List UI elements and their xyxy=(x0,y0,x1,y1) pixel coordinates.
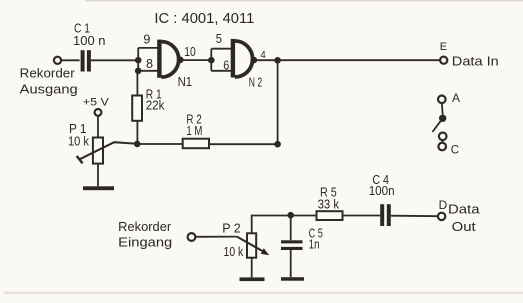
capacitor C5 xyxy=(281,216,323,278)
ground (P1) xyxy=(83,186,114,190)
svg-text:N 2: N 2 xyxy=(249,76,262,90)
svg-text:C: C xyxy=(451,145,459,157)
wire P1 to ground xyxy=(97,164,99,187)
resistor R2 xyxy=(183,112,209,148)
svg-text:A: A xyxy=(452,91,460,105)
switch lever xyxy=(432,118,442,132)
wire C4 to D terminal xyxy=(391,215,438,218)
wire bottom scan artifact line xyxy=(4,292,523,295)
svg-text:10 k: 10 k xyxy=(224,245,244,259)
wire pin 6 xyxy=(211,70,231,72)
wire top scan artifact line xyxy=(85,0,523,2)
resistor R5 xyxy=(317,185,343,220)
svg-text:+5 V: +5 V xyxy=(83,96,110,108)
wire N2 input riser xyxy=(210,49,212,71)
wire terminal to C1 xyxy=(61,59,79,61)
node N1 output dot xyxy=(177,57,184,64)
svg-text:Data In: Data In xyxy=(452,54,499,68)
wire pin 9 xyxy=(138,47,158,49)
svg-text:10 k: 10 k xyxy=(68,134,90,148)
resistor R1 xyxy=(132,71,165,144)
svg-text:100 n: 100 n xyxy=(73,34,106,48)
capacitor C4 xyxy=(369,173,395,226)
node pin8 junction xyxy=(135,68,142,75)
gate N1 xyxy=(157,40,192,89)
switch contact circle xyxy=(439,133,447,141)
wire C1 to N1 input node xyxy=(91,59,138,61)
wire N1 out to N2 in xyxy=(181,59,212,61)
svg-text:22k: 22k xyxy=(146,98,165,112)
wire switch contact link xyxy=(441,140,443,143)
wire N2 out to feedback node xyxy=(254,59,278,61)
wire feedback bottom to R2 xyxy=(209,143,278,145)
wire input riser xyxy=(137,48,139,71)
svg-text:N1: N1 xyxy=(178,75,193,89)
wire P1 wiper xyxy=(77,142,137,163)
svg-text:33 k: 33 k xyxy=(318,197,340,211)
svg-text:Eingang: Eingang xyxy=(118,235,172,249)
node feedback junction top xyxy=(274,57,281,64)
node R1 bottom junction xyxy=(134,141,141,148)
node feedback junction bottom xyxy=(274,141,281,148)
node C terminal xyxy=(438,143,459,157)
wire P2 wiper arrow xyxy=(237,237,270,256)
wire output to E terminal xyxy=(278,59,441,61)
svg-text:Ausgang: Ausgang xyxy=(20,83,78,97)
potentiometer P1 xyxy=(68,96,110,163)
switch pole dot xyxy=(439,115,446,122)
wire P2 to ground xyxy=(251,258,253,278)
wire P2 top riser to rail xyxy=(252,216,291,234)
svg-text:E: E xyxy=(440,41,447,53)
svg-text:1 M: 1 M xyxy=(186,124,202,138)
wire junction to R5 xyxy=(291,215,317,217)
ground (P2) xyxy=(240,277,265,281)
wire feedback riser xyxy=(277,60,279,144)
svg-text:Rekorder: Rekorder xyxy=(118,220,171,234)
svg-text:5: 5 xyxy=(216,32,222,46)
wire R2 to R1 bottom junction xyxy=(137,143,183,145)
wire switch A to pole xyxy=(441,103,444,115)
capacitor C1 xyxy=(73,21,106,71)
svg-text:8: 8 xyxy=(146,57,153,71)
svg-text:D: D xyxy=(439,198,448,212)
svg-text:6: 6 xyxy=(223,58,229,72)
svg-text:Out: Out xyxy=(452,220,477,234)
ground (C5) xyxy=(281,277,304,281)
node A terminal xyxy=(438,91,460,105)
node N1 input junction xyxy=(135,57,142,64)
svg-text:9: 9 xyxy=(143,32,150,46)
svg-text:10: 10 xyxy=(184,45,196,59)
svg-text:P 2: P 2 xyxy=(222,221,241,235)
wire R5 to C4 xyxy=(343,215,381,217)
svg-text:Data: Data xyxy=(448,203,480,217)
wire pin 8 xyxy=(138,70,158,72)
svg-text:4: 4 xyxy=(260,49,266,61)
node D terminal xyxy=(438,198,480,234)
node E terminal xyxy=(440,41,499,69)
node N2 output dot xyxy=(251,57,258,64)
wire Eingang to wiper xyxy=(195,236,236,238)
svg-text:1n: 1n xyxy=(309,237,320,251)
node N2 input junction xyxy=(208,57,215,64)
svg-text:IC : 4001, 4011: IC : 4001, 4011 xyxy=(154,11,254,27)
wire pin 5 xyxy=(211,48,231,50)
gate N2 xyxy=(231,39,262,90)
potentiometer P2 xyxy=(222,221,256,259)
node Rekorder Eingang terminal xyxy=(118,220,195,249)
svg-text:100n: 100n xyxy=(369,184,395,198)
node C5/R5 junction xyxy=(287,212,294,219)
svg-text:Rekorder: Rekorder xyxy=(20,67,75,81)
node Rekorder Ausgang terminal xyxy=(20,57,78,97)
